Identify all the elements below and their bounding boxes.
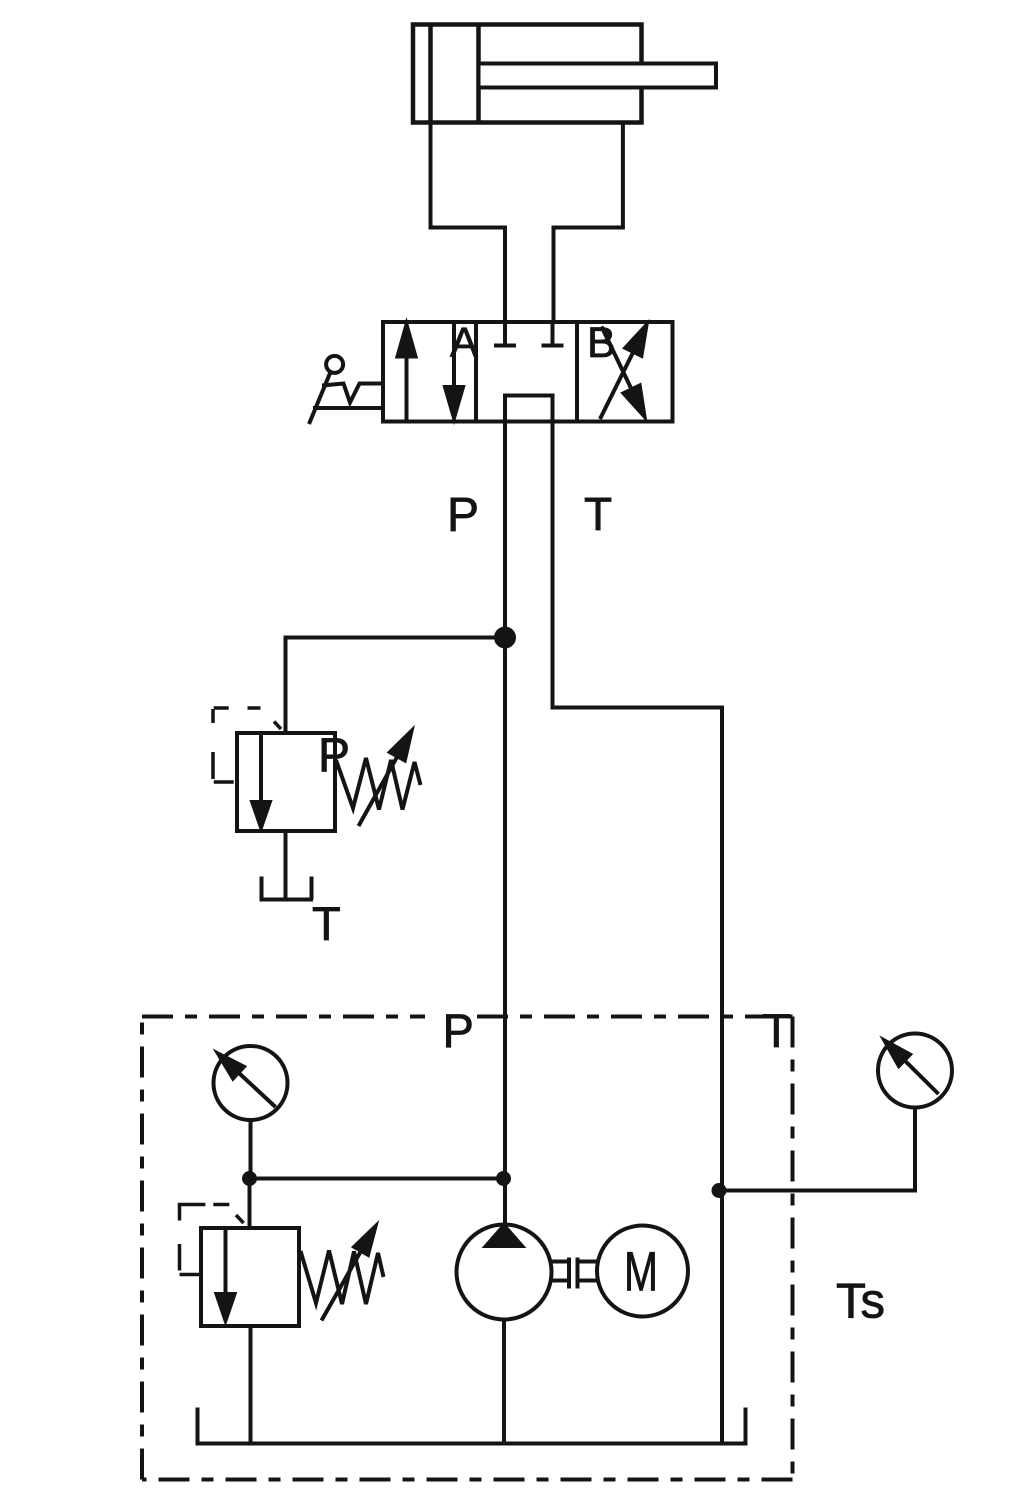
wire cylinder rod port to valve B [554, 123, 623, 323]
svg-text:T: T [584, 488, 612, 540]
relief valve RV2 pilot dashed frame [178, 1205, 244, 1275]
wire T branch to gauge G2 [721, 1108, 916, 1191]
pump P1 [457, 1225, 552, 1320]
valve V1 center P-T bypass [505, 396, 553, 422]
valve V1 center B port blocked [542, 322, 564, 346]
valve V1 center A port blocked [494, 322, 516, 346]
wire T line valve to tank [553, 422, 723, 1444]
wire P branch to relief valve RV1 [286, 638, 506, 734]
svg-text:B: B [587, 319, 616, 367]
relief valve RV1 spring [336, 758, 421, 810]
gauge G2 [878, 1034, 952, 1108]
relief valve RV1 drain wire [284, 831, 288, 900]
wire cylinder cap port to valve A [431, 123, 506, 323]
svg-text:P: P [318, 730, 350, 783]
relief valve RV1 adjust arrow [359, 756, 398, 826]
node P pump junction [496, 1171, 511, 1186]
wire gauge G1 drop [249, 1120, 253, 1179]
svg-text:T: T [762, 1004, 791, 1057]
tank T1 [260, 877, 314, 900]
wire branch to P line [250, 1177, 506, 1181]
wire to relief valve RV2 [248, 1179, 252, 1229]
valve V1 right position arrow P-B [600, 352, 633, 419]
gauge G1 [214, 1046, 288, 1120]
shaft coupling [552, 1258, 598, 1289]
cylinder piston [428, 25, 433, 123]
valve V1 right position arrow A-T [602, 327, 632, 390]
lever actuator [326, 356, 343, 373]
svg-text:Ts: Ts [836, 1275, 885, 1329]
relief valve RV1 body [237, 733, 335, 831]
wire pump outlet [502, 1320, 506, 1444]
valve V1 left position up arrow [405, 353, 409, 422]
valve V1 body [383, 322, 673, 422]
label P box [425, 1011, 475, 1022]
relief valve RV2 adjust arrow [322, 1251, 362, 1321]
node gauge branch [242, 1171, 257, 1186]
svg-text:A: A [450, 319, 478, 366]
cylinder rod [479, 64, 717, 88]
wire RV2 drain [249, 1326, 253, 1444]
cylinder C1 body [413, 25, 642, 123]
relief valve RV1 arrow [259, 735, 263, 804]
power unit dashed enclosure [142, 1017, 793, 1480]
svg-text:P: P [443, 1004, 474, 1057]
svg-text:P: P [447, 489, 479, 542]
relief valve RV2 spring [301, 1251, 384, 1305]
motor M1 [597, 1226, 688, 1317]
svg-text:M: M [624, 1240, 658, 1303]
node P junction [494, 627, 516, 649]
node T branch [712, 1183, 727, 1198]
valve V1 left position down arrow [452, 323, 456, 390]
svg-text:T: T [312, 897, 341, 950]
relief valve RV1 pilot dashed frame [213, 708, 281, 782]
wire P line valve to pump [503, 422, 507, 1225]
tank T2 [198, 1408, 746, 1444]
relief valve RV2 body [201, 1228, 299, 1326]
relief valve RV2 arrow [224, 1229, 228, 1295]
